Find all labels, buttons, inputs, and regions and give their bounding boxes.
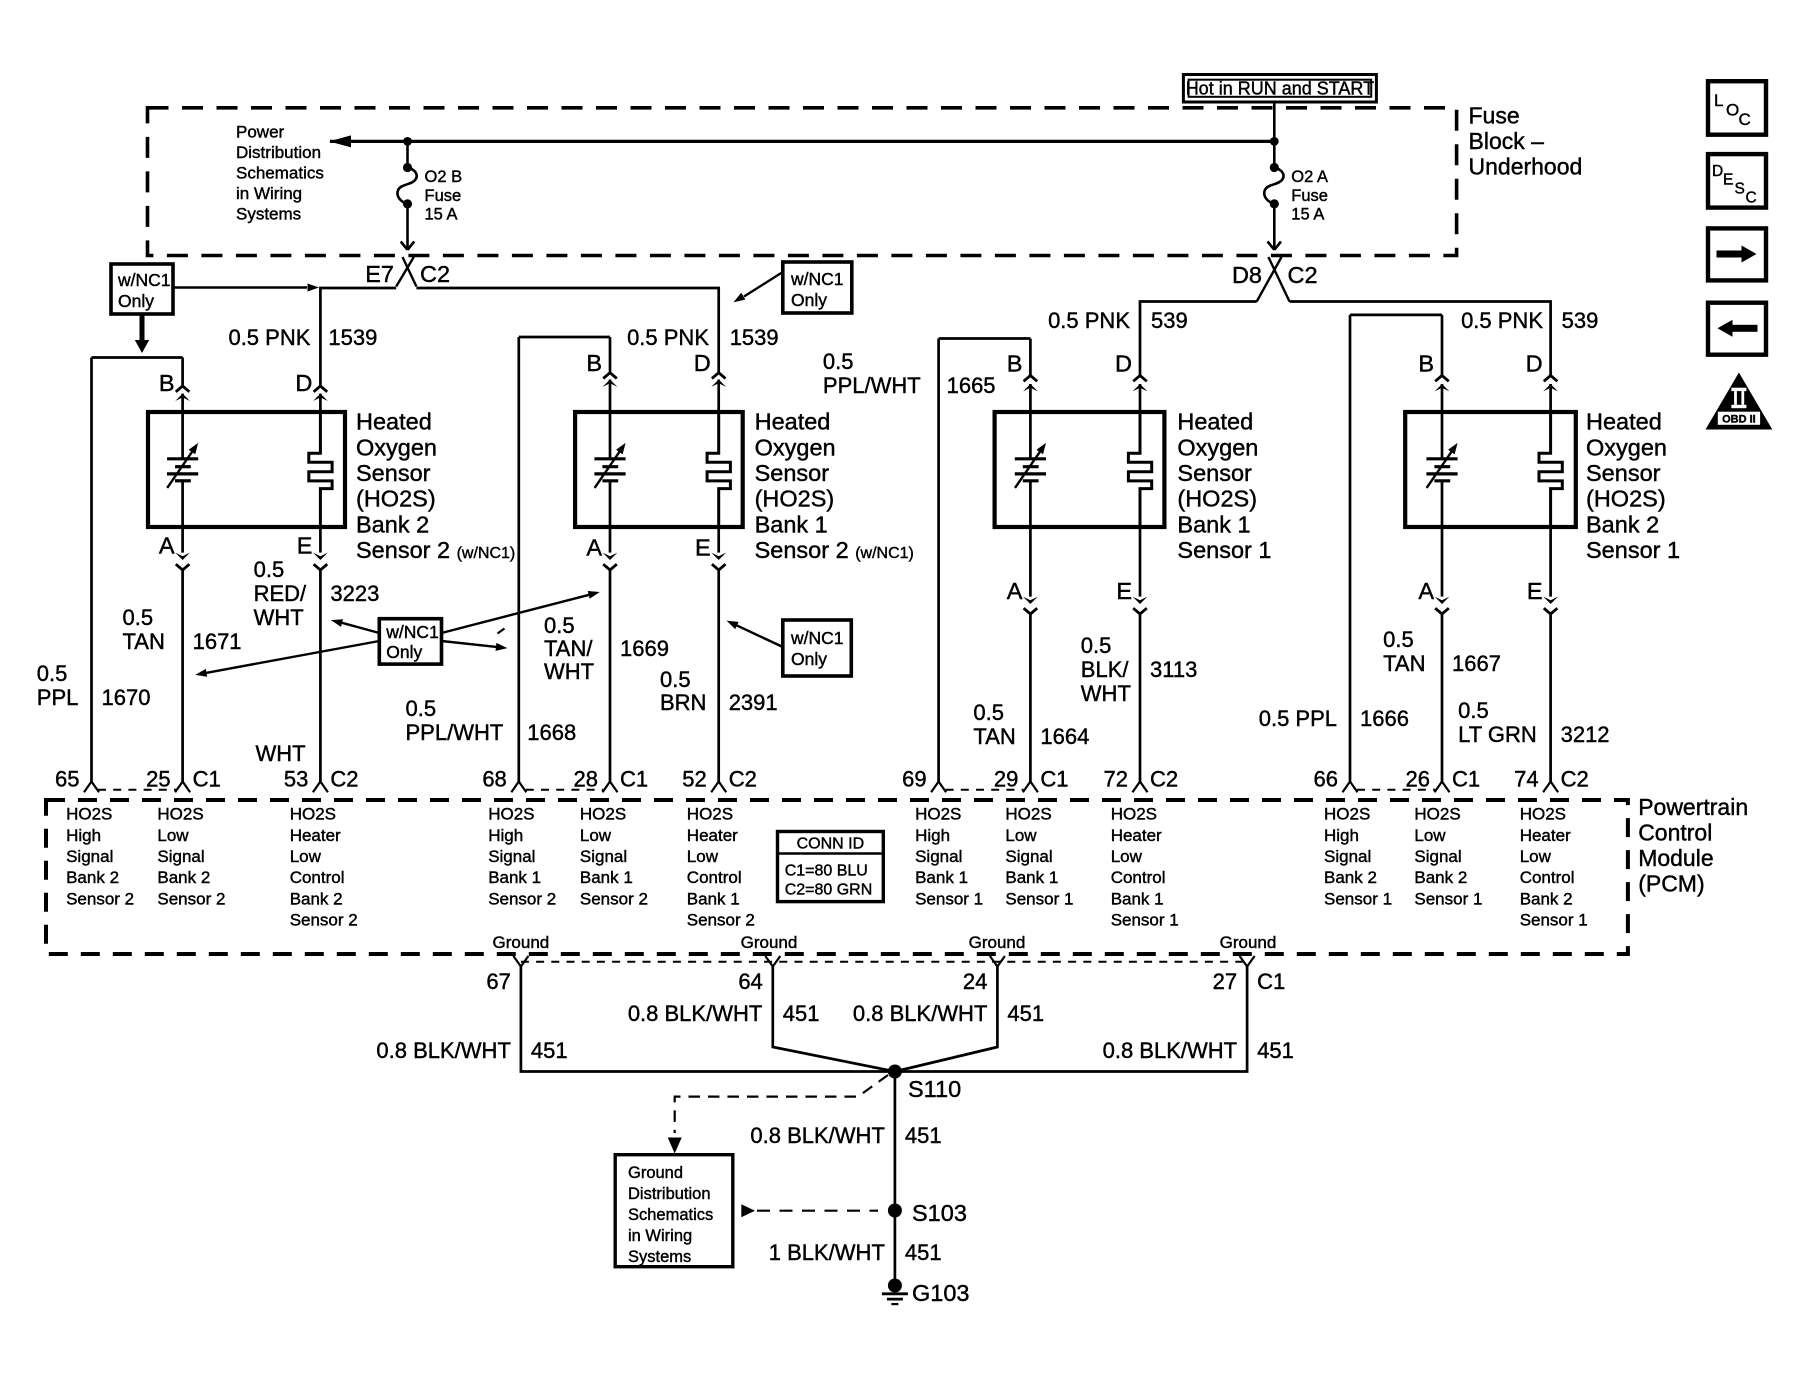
svg-text:Ground: Ground [628, 1164, 683, 1182]
svg-text:0.5: 0.5 [37, 661, 68, 686]
HO2S Bank 1 Sensor 1 (sensor box U3) [995, 412, 1165, 527]
svg-text:Heater: Heater [1520, 826, 1571, 845]
label wire 1667 0.5 TAN (B2S1 signal low) [1383, 627, 1501, 676]
svg-text:Control: Control [290, 868, 345, 887]
svg-text:Systems: Systems [236, 204, 301, 223]
svg-text:D: D [694, 350, 711, 376]
svg-text:0.5 PNK: 0.5 PNK [228, 325, 310, 350]
svg-text:w/NC1: w/NC1 [790, 628, 844, 648]
callout box w/NC1 Only (upper right) [783, 262, 852, 313]
sensor element (variable cell) U1 [167, 443, 198, 488]
svg-text:Bank 1: Bank 1 [1177, 511, 1250, 537]
arrow: middle w/NC1 to wire 1671 [195, 641, 379, 677]
svg-text:539: 539 [1151, 308, 1188, 333]
svg-text:65: 65 [55, 767, 79, 792]
svg-text:Fuse: Fuse [425, 187, 462, 205]
svg-text:Block –: Block – [1469, 128, 1545, 154]
svg-text:69: 69 [902, 767, 926, 792]
svg-text:Control: Control [1111, 868, 1166, 887]
svg-text:1667: 1667 [1452, 651, 1501, 676]
svg-text:66: 66 [1314, 767, 1338, 792]
wire: signal high branch of U1 to PCM [84, 358, 183, 793]
svg-text:1671: 1671 [193, 629, 242, 654]
svg-text:Low: Low [1111, 847, 1143, 866]
svg-text:Sensor 2: Sensor 2 [580, 889, 648, 908]
connector D8 / C2 (breakout X) [1232, 257, 1318, 302]
svg-text:0.5: 0.5 [544, 613, 575, 638]
connector E7 / C2 (breakout X) [365, 257, 450, 287]
svg-text:Sensor 1: Sensor 1 [1520, 911, 1588, 930]
svg-text:1665: 1665 [947, 373, 996, 398]
svg-text:Heated: Heated [1177, 409, 1253, 435]
svg-text:Ground: Ground [493, 933, 550, 952]
svg-text:Signal: Signal [915, 847, 962, 866]
wire 539 0.5 PNK to HO2S B1S1 pin D [1048, 302, 1257, 376]
svg-text:C1: C1 [1257, 969, 1285, 994]
svg-text:Sensor: Sensor [1177, 460, 1252, 486]
svg-text:S: S [1735, 181, 1745, 198]
svg-text:1669: 1669 [620, 636, 669, 661]
svg-text:Distribution: Distribution [236, 143, 321, 162]
splice S103 [888, 1200, 967, 1226]
svg-text:in Wiring: in Wiring [628, 1227, 692, 1245]
wire: pin B signal into U1 [159, 358, 190, 459]
wire: pin B signal into U2 [586, 337, 617, 459]
svg-text:Ground: Ground [741, 933, 798, 952]
svg-text:Signal: Signal [66, 847, 113, 866]
svg-text:TAN: TAN [1383, 651, 1425, 676]
wire: signal high branch of U2 to PCM [511, 337, 610, 792]
wire: signal high branch of U3 to PCM [931, 339, 1030, 793]
svg-text:Sensor 1: Sensor 1 [1414, 889, 1482, 908]
svg-text:D: D [1526, 351, 1543, 377]
svg-text:Control: Control [687, 868, 742, 887]
svg-text:C1: C1 [620, 767, 648, 792]
svg-text:Powertrain: Powertrain [1638, 794, 1748, 820]
arrow: w/NC1 upper-left thick arrow down to B2S2 signal feed [135, 314, 149, 353]
svg-text:53: 53 [284, 767, 308, 792]
svg-text:Oxygen: Oxygen [1586, 434, 1667, 460]
wire: pin B signal into U3 [1007, 339, 1038, 459]
svg-text:HO2S: HO2S [1005, 805, 1051, 824]
svg-text:Bank 1: Bank 1 [1111, 889, 1164, 908]
svg-text:Hot in RUN and START: Hot in RUN and START [1186, 78, 1374, 98]
arrow: w/NC1 upper-left to wire 1539 corner [173, 284, 319, 292]
svg-text:Sensor 1: Sensor 1 [915, 889, 983, 908]
svg-text:Only: Only [791, 649, 827, 669]
svg-text:Sensor: Sensor [755, 460, 830, 486]
svg-text:BLK/: BLK/ [1081, 657, 1130, 682]
svg-text:3223: 3223 [330, 581, 379, 606]
svg-text:Low: Low [580, 826, 612, 845]
wire: signal high branch of U4 to PCM [1343, 315, 1443, 792]
svg-text:451: 451 [783, 1001, 820, 1026]
svg-text:RED/: RED/ [254, 581, 307, 606]
label WHT near PCM pin 53 [256, 741, 306, 766]
svg-text:0.5: 0.5 [660, 667, 691, 692]
svg-text:HO2S: HO2S [1414, 805, 1460, 824]
svg-text:25: 25 [146, 767, 170, 792]
svg-text:C2: C2 [1561, 767, 1589, 792]
svg-text:451: 451 [905, 1123, 942, 1148]
svg-text:PPL/WHT: PPL/WHT [823, 373, 921, 398]
svg-text:w/NC1: w/NC1 [790, 269, 844, 289]
svg-text:E: E [297, 533, 313, 559]
svg-text:A: A [586, 535, 602, 561]
svg-text:Ground: Ground [969, 933, 1026, 952]
Powertrain Control Module (PCM) dashed box [46, 800, 1628, 954]
svg-text:26: 26 [1406, 767, 1430, 792]
svg-text:0.5: 0.5 [123, 605, 154, 630]
label wire 1666 0.5 PPL (B2S1 signal high) [1259, 706, 1409, 731]
svg-text:E: E [1723, 172, 1733, 189]
svg-text:A: A [1418, 578, 1434, 604]
svg-text:TAN: TAN [123, 629, 165, 654]
wire: pin B signal into U4 [1418, 315, 1449, 459]
wire: drop from Hot in RUN and START to bus [1273, 101, 1276, 167]
label: Heated Oxygen Sensor (HO2S) Bank 2 Sensor 1 [1586, 409, 1680, 563]
svg-text:451: 451 [1257, 1038, 1294, 1063]
svg-text:Bank 1: Bank 1 [580, 868, 633, 887]
svg-text:C2: C2 [420, 261, 450, 287]
svg-text:HO2S: HO2S [1111, 805, 1157, 824]
svg-text:O: O [1726, 101, 1739, 120]
svg-text:C2=80 GRN: C2=80 GRN [785, 882, 873, 899]
svg-text:1670: 1670 [102, 685, 151, 710]
svg-text:WHT: WHT [544, 659, 594, 684]
svg-text:Bank 2: Bank 2 [1414, 868, 1467, 887]
svg-text:Signal: Signal [1324, 847, 1371, 866]
svg-text:3212: 3212 [1561, 722, 1610, 747]
svg-text:15 A: 15 A [425, 206, 458, 224]
PCM pin function labels [66, 805, 1588, 930]
svg-text:3113: 3113 [1150, 657, 1197, 682]
svg-text:w/NC1: w/NC1 [117, 270, 171, 290]
wire 451 0.8 BLK/WHT from pin 24 [853, 967, 1044, 1072]
svg-text:HO2S: HO2S [290, 805, 336, 824]
wire: pin A signal low out of U3 [1007, 481, 1038, 793]
svg-text:Bank 2: Bank 2 [1324, 868, 1377, 887]
svg-text:1539: 1539 [328, 325, 377, 350]
svg-text:451: 451 [531, 1038, 568, 1063]
svg-text:C2: C2 [729, 767, 757, 792]
svg-text:B: B [1007, 351, 1023, 377]
svg-text:Underhood: Underhood [1469, 153, 1583, 179]
svg-text:0.8 BLK/WHT: 0.8 BLK/WHT [628, 1001, 762, 1026]
fuse O2 A 15 A [1264, 163, 1328, 224]
svg-text:0.5: 0.5 [1383, 627, 1414, 652]
svg-text:L: L [1714, 91, 1723, 110]
svg-text:Low: Low [1520, 847, 1552, 866]
svg-text:Heated: Heated [1586, 409, 1662, 435]
dashed reference link S110 to ground distribution note [668, 1075, 888, 1154]
svg-text:Low: Low [1414, 826, 1446, 845]
svg-text:C: C [1746, 190, 1757, 207]
svg-text:C1: C1 [193, 767, 221, 792]
svg-text:74: 74 [1514, 767, 1538, 792]
svg-text:D: D [1115, 351, 1132, 377]
svg-text:Sensor: Sensor [1586, 460, 1661, 486]
svg-text:E: E [1116, 578, 1132, 604]
PCM bottom ground pin connector dashed rail [521, 961, 1247, 963]
label wire 1670 0.5 PPL (B2S2 signal high) [37, 661, 151, 710]
svg-text:HO2S: HO2S [1324, 805, 1370, 824]
PCM internal dashed links (signal pairs) [98, 789, 1435, 791]
svg-text:Only: Only [791, 290, 827, 310]
svg-text:Sensor 1: Sensor 1 [1005, 889, 1073, 908]
svg-text:E7: E7 [365, 261, 394, 287]
label wire 1668 0.5 PPL/WHT (B1S2 signal high) [406, 696, 577, 745]
svg-text:Bank 2: Bank 2 [66, 868, 119, 887]
junction: bus / O2 B fuse tap [403, 137, 412, 146]
svg-text:CONN ID: CONN ID [797, 836, 865, 853]
svg-text:24: 24 [963, 969, 987, 994]
wire: pin E heater low out of U1 [297, 525, 328, 792]
wire: pin A signal low out of U4 [1418, 481, 1449, 793]
svg-text:Distribution: Distribution [628, 1185, 711, 1203]
label: Heated Oxygen Sensor (HO2S) Bank 2 Sensor 2 [356, 409, 515, 563]
svg-text:HO2S: HO2S [1520, 805, 1566, 824]
svg-text:Low: Low [157, 826, 189, 845]
svg-text:0.5: 0.5 [1081, 633, 1112, 658]
label: Powertrain Control Module (PCM) [1638, 794, 1748, 897]
wire: pin A signal low out of U1 [159, 481, 190, 793]
wire 451 0.8 BLK/WHT from pin 67 [376, 967, 893, 1072]
svg-text:1666: 1666 [1360, 706, 1409, 731]
HO2S Bank 2 Sensor 2 (sensor box U1) [148, 412, 345, 527]
svg-text:B: B [586, 350, 602, 376]
svg-text:Sensor 2: Sensor 2 [687, 911, 755, 930]
svg-text:Signal: Signal [1005, 847, 1052, 866]
svg-text:29: 29 [994, 767, 1018, 792]
wire: pin D heater feed into U4 [1526, 351, 1558, 415]
heater element U1 [309, 412, 332, 525]
svg-text:A: A [159, 533, 175, 559]
icon: DESC button [1708, 154, 1766, 208]
heater element U4 [1539, 412, 1562, 525]
label wire 1669 0.5 TAN/WHT (B1S2 signal low) [544, 613, 669, 684]
svg-text:Bank 2: Bank 2 [1520, 889, 1573, 908]
label: Heated Oxygen Sensor (HO2S) Bank 1 Sensor 1 [1177, 409, 1271, 563]
svg-text:Power: Power [236, 123, 285, 142]
svg-text:Control: Control [1638, 820, 1712, 846]
svg-text:Heated: Heated [755, 409, 831, 435]
svg-text:D: D [1712, 163, 1723, 180]
svg-text:0.8 BLK/WHT: 0.8 BLK/WHT [853, 1001, 987, 1026]
label wire 2391 0.5 BRN (B1S2 heater low) [660, 667, 778, 715]
svg-text:C2: C2 [1288, 262, 1318, 288]
svg-text:in Wiring: in Wiring [236, 184, 302, 203]
label: Hot in RUN and START box [1183, 75, 1376, 103]
svg-text:High: High [66, 826, 101, 845]
svg-text:Sensor 1: Sensor 1 [1324, 889, 1392, 908]
wire: pin D heater feed into U3 [1115, 351, 1147, 415]
svg-text:Bank 2: Bank 2 [290, 889, 343, 908]
svg-text:B: B [159, 370, 175, 396]
svg-text:68: 68 [482, 767, 506, 792]
svg-text:(HO2S): (HO2S) [1177, 486, 1257, 512]
label wire 1664 0.5 TAN (B1S1 signal low) [973, 700, 1089, 749]
svg-text:72: 72 [1104, 767, 1128, 792]
svg-text:HO2S: HO2S [687, 805, 733, 824]
splice S110 [888, 1065, 961, 1103]
wire: pin A signal low out of U2 [586, 481, 617, 793]
svg-text:Schematics: Schematics [628, 1206, 713, 1224]
svg-text:(PCM): (PCM) [1638, 871, 1704, 897]
svg-text:Systems: Systems [628, 1248, 691, 1266]
svg-text:HO2S: HO2S [157, 805, 203, 824]
svg-text:0.5: 0.5 [973, 700, 1004, 725]
svg-text:S103: S103 [912, 1200, 967, 1226]
svg-text:LT GRN: LT GRN [1458, 722, 1537, 747]
svg-text:0.5 PNK: 0.5 PNK [627, 325, 709, 350]
svg-text:451: 451 [1007, 1001, 1044, 1026]
wire 451 1 BLK/WHT S103 to G103 [769, 1211, 942, 1286]
svg-text:Bank 1: Bank 1 [755, 511, 828, 537]
wire: pin E heater low out of U3 [1116, 525, 1147, 792]
svg-text:Bank 2: Bank 2 [356, 511, 429, 537]
svg-text:PPL: PPL [37, 685, 79, 710]
label: Heated Oxygen Sensor (HO2S) Bank 1 Sensor 2 [755, 409, 914, 563]
svg-text:Heater: Heater [1111, 826, 1162, 845]
wire: tap down to O2 B fuse [406, 141, 409, 167]
svg-text:BRN: BRN [660, 690, 706, 715]
callout box w/NC1 Only (lower right) [783, 620, 852, 676]
svg-text:0.5: 0.5 [254, 557, 285, 582]
svg-text:Sensor 1: Sensor 1 [1177, 537, 1271, 563]
svg-text:1664: 1664 [1040, 724, 1089, 749]
fuse block - underhood (dashed outline) [148, 108, 1457, 256]
icon: back arrow button [1708, 303, 1766, 355]
sensor element (variable cell) U4 [1426, 443, 1457, 488]
label wire 3223 0.5 RED/WHT (B2S2 heater low) [254, 557, 380, 630]
callout box w/NC1 Only (upper left) [111, 264, 173, 314]
svg-text:Signal: Signal [580, 847, 627, 866]
wire 539 0.5 PNK to HO2S B2S1 pin D [1290, 302, 1599, 376]
sensor element (variable cell) U2 [594, 443, 625, 488]
svg-text:HO2S: HO2S [66, 805, 112, 824]
svg-text:C2: C2 [1150, 767, 1178, 792]
arrow: middle w/NC1 to wire 1669 [442, 591, 600, 633]
wire 1539 0.5 PNK to HO2S B1S2 pin D [416, 288, 778, 373]
svg-text:Fuse: Fuse [1469, 103, 1520, 129]
arrow: middle w/NC1 to wire 1668 [442, 629, 508, 651]
svg-text:TAN: TAN [973, 724, 1015, 749]
svg-text:Oxygen: Oxygen [356, 434, 437, 460]
ground G103 [882, 1279, 970, 1307]
svg-text:C2: C2 [330, 767, 358, 792]
svg-text:(HO2S): (HO2S) [356, 486, 436, 512]
svg-text:0.5 PNK: 0.5 PNK [1048, 308, 1130, 333]
svg-text:WHT: WHT [254, 605, 304, 630]
heater element U3 [1128, 412, 1151, 525]
svg-text:1539: 1539 [730, 325, 779, 350]
PCM internal Ground labels [493, 933, 1277, 952]
wire: pin E heater low out of U4 [1527, 525, 1558, 792]
arrow: w/NC1 upper-right to wire 1539 [734, 272, 783, 302]
HO2S Bank 2 Sensor 1 (sensor box U4) [1405, 412, 1576, 527]
wire 1539 0.5 PNK to HO2S B2S2 pin D [228, 288, 396, 386]
svg-text:Sensor 1: Sensor 1 [1586, 537, 1680, 563]
wire: hot feed bus inside fuse block [329, 135, 1274, 147]
label wire 3212 0.5 LT GRN (B2S1 heater low) [1458, 698, 1609, 747]
svg-text:Signal: Signal [488, 847, 535, 866]
svg-text:Bank 1: Bank 1 [1005, 868, 1058, 887]
svg-text:WHT: WHT [1081, 681, 1131, 706]
svg-text:HO2S: HO2S [915, 805, 961, 824]
svg-text:28: 28 [574, 767, 598, 792]
svg-text:O2 A: O2 A [1291, 168, 1328, 186]
svg-text:Sensor 2: Sensor 2 [66, 889, 134, 908]
svg-text:OBD II: OBD II [1722, 413, 1756, 425]
svg-text:67: 67 [486, 969, 510, 994]
svg-text:Heated: Heated [356, 409, 432, 435]
svg-text:E: E [1527, 578, 1543, 604]
svg-text:Bank 1: Bank 1 [488, 868, 541, 887]
svg-text:451: 451 [905, 1240, 942, 1265]
wire 451 0.8 BLK/WHT S110 to S103 [750, 1072, 941, 1212]
callout box w/NC1 Only (middle) [379, 619, 441, 664]
svg-text:C1: C1 [1452, 767, 1480, 792]
svg-text:0.5 PPL: 0.5 PPL [1259, 706, 1337, 731]
label: Fuse Block - Underhood [1469, 103, 1583, 180]
svg-text:Heater: Heater [687, 826, 738, 845]
svg-text:TAN/: TAN/ [544, 636, 593, 661]
svg-text:C1=80 BLU: C1=80 BLU [785, 863, 868, 880]
HO2S Bank 1 Sensor 2 (sensor box U2) [575, 412, 743, 527]
wire 451 0.8 BLK/WHT from pin 64 [628, 967, 895, 1072]
svg-text:0.5: 0.5 [1458, 698, 1489, 723]
PCM bottom ground pins 67 64 24 27 [486, 956, 1285, 994]
svg-text:27: 27 [1213, 969, 1237, 994]
svg-text:Bank 1: Bank 1 [687, 889, 740, 908]
svg-text:Sensor 2: Sensor 2 [488, 889, 556, 908]
wire: pin D heater feed into U2 [694, 350, 726, 414]
wire: pin E heater low out of U2 [695, 525, 726, 792]
icon: OBD II triangle [1706, 373, 1773, 430]
svg-text:HO2S: HO2S [580, 805, 626, 824]
svg-text:Low: Low [290, 847, 322, 866]
svg-text:0.8 BLK/WHT: 0.8 BLK/WHT [1103, 1038, 1237, 1063]
PCM top pin numbers [55, 767, 1589, 792]
svg-text:Fuse: Fuse [1291, 187, 1328, 205]
svg-text:Only: Only [386, 642, 422, 662]
label wire 3113 0.5 BLK/WHT (B1S1 heater low) [1081, 633, 1198, 706]
wire 451 0.8 BLK/WHT from pin 27 [896, 967, 1294, 1072]
svg-text:High: High [1324, 826, 1359, 845]
arrow: middle w/NC1 to wire 3223 [331, 619, 379, 633]
svg-text:Oxygen: Oxygen [1177, 434, 1258, 460]
svg-text:High: High [488, 826, 523, 845]
icon: LOC button [1708, 81, 1766, 135]
svg-text:Low: Low [1005, 826, 1037, 845]
label wire 1671 0.5 TAN (B2S2 signal low) [123, 605, 242, 654]
svg-text:0.8 BLK/WHT: 0.8 BLK/WHT [750, 1123, 884, 1148]
sensor element (variable cell) U3 [1015, 443, 1046, 488]
svg-text:PPL/WHT: PPL/WHT [406, 720, 504, 745]
svg-text:Sensor 2: Sensor 2 [157, 889, 225, 908]
note: Power Distribution Schematics in Wiring Systems [236, 123, 324, 224]
svg-text:1668: 1668 [527, 720, 576, 745]
svg-text:C: C [1739, 110, 1751, 129]
svg-text:Sensor 2: Sensor 2 [290, 911, 358, 930]
junction: bus / O2 A fuse drop [1270, 137, 1279, 146]
svg-text:0.5: 0.5 [406, 696, 437, 721]
heater element U2 [707, 412, 730, 525]
svg-text:O2 B: O2 B [425, 168, 463, 186]
svg-text:52: 52 [682, 767, 706, 792]
svg-text:0.5 PNK: 0.5 PNK [1461, 308, 1543, 333]
